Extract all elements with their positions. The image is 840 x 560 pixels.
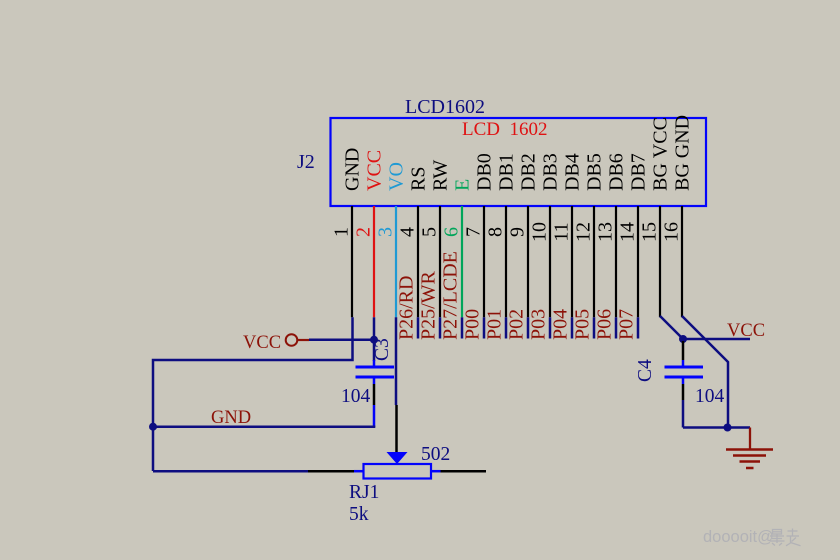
svg-text:LCD 1602: LCD 1602 (462, 119, 548, 140)
svg-text:10: 10 (529, 222, 551, 242)
potentiometer RJ1 (354, 452, 441, 479)
pin 11 (DB4) of J2 (551, 153, 584, 317)
svg-text:E: E (452, 179, 474, 191)
svg-text:BG GND: BG GND (672, 115, 694, 191)
pin 13 (DB6) of J2 (595, 153, 628, 317)
svg-text:C4: C4 (635, 359, 656, 382)
svg-text:DB5: DB5 (584, 153, 606, 191)
svg-text:dooooit@: dooooit@ (703, 528, 774, 546)
watermark dooooit@baozou (703, 528, 801, 546)
reference RJ1 (349, 482, 379, 503)
wire: RJ1 right terminal (441, 470, 487, 473)
ground symbol (726, 428, 773, 469)
pin 6 (E) of J2 (441, 179, 474, 318)
wire stub with net label P25/WR on pin 5 (418, 270, 441, 340)
svg-text:DB0: DB0 (474, 153, 496, 191)
svg-text:P26/RD: P26/RD (396, 276, 418, 340)
pin 14 (DB7) of J2 (617, 153, 650, 317)
svg-text:P07: P07 (616, 309, 638, 340)
connector J2 LCD1602 body (331, 118, 707, 206)
pin 15 (BG VCC) of J2 (639, 117, 672, 317)
reference C3 (372, 338, 393, 361)
pin 9 (DB2) of J2 (507, 153, 540, 317)
svg-text:13: 13 (595, 222, 617, 242)
pin 4 (RS) of J2 (397, 167, 430, 318)
svg-text:P27/LCDE: P27/LCDE (440, 251, 462, 340)
power net label VCC (right) (727, 321, 765, 341)
wire stub with net label P27/LCDE on pin 6 (440, 251, 463, 340)
pin 1 (GND) of J2 (331, 148, 364, 318)
svg-text:P00: P00 (462, 309, 484, 340)
pin 7 (DB0) of J2 (463, 153, 496, 317)
svg-text:VCC: VCC (364, 150, 386, 191)
svg-text:P03: P03 (528, 309, 550, 340)
wire: ground rail horizontal (153, 425, 375, 428)
pin 10 (DB3) of J2 (529, 153, 562, 317)
svg-text:P05: P05 (572, 309, 594, 340)
wire: junction down to C4 (682, 341, 685, 360)
svg-text:VCC: VCC (727, 321, 765, 341)
pin 3 (VO) of J2 (375, 162, 408, 317)
wire stub with net label P00 on pin 7 (462, 309, 485, 340)
capacitor C3 (356, 360, 395, 384)
svg-text:P04: P04 (550, 309, 572, 340)
wire: C3 bottom to ground rail (373, 384, 376, 427)
label LCD 1602 (header text) (462, 119, 548, 140)
pin 2 (VCC) of J2 (353, 150, 386, 317)
value 5k of RJ1 (349, 504, 369, 525)
svg-text:2: 2 (353, 227, 375, 237)
svg-text:DB2: DB2 (518, 153, 540, 191)
svg-text:VCC: VCC (243, 333, 281, 353)
pin 16 (BG GND) of J2 (661, 115, 694, 317)
wire stub with net label P07 on pin 14 (616, 309, 639, 340)
pin 5 (RW) of J2 (419, 160, 452, 318)
svg-text:C3: C3 (372, 338, 393, 361)
svg-text:DB3: DB3 (540, 153, 562, 191)
svg-text:DB7: DB7 (628, 153, 650, 191)
wire: pin 16 (BG GND) diagonal and down to ground junction (682, 316, 728, 428)
svg-text:LCD1602: LCD1602 (405, 96, 485, 118)
svg-text:5k: 5k (349, 504, 369, 525)
wire stub with net label P26/RD on pin 4 (396, 276, 419, 340)
label LCD1602 (part value) (405, 96, 485, 118)
svg-text:P06: P06 (594, 309, 616, 340)
capacitor C4 (665, 360, 704, 384)
svg-text:DB4: DB4 (562, 153, 584, 191)
wire stub with net label P02 on pin 9 (506, 309, 529, 340)
wire: pin 3 (VO) down to RJ1 wiper (395, 317, 398, 452)
svg-text:16: 16 (661, 222, 683, 242)
wire: pin 15 (BG VCC) diagonal to VCC junction (660, 316, 683, 339)
svg-text:15: 15 (639, 222, 661, 242)
svg-text:P01: P01 (484, 309, 506, 340)
pin 8 (DB1) of J2 (485, 153, 518, 317)
value 104 of C3 (341, 386, 371, 407)
value 104 of C4 (695, 386, 725, 407)
svg-text:4: 4 (397, 227, 419, 237)
wire: VCC terminal to junction on pin2 net (309, 338, 374, 341)
svg-text:P02: P02 (506, 309, 528, 340)
wire stub with net label P06 on pin 13 (594, 309, 617, 340)
wire: C4 bottom to ground junction (683, 384, 750, 428)
svg-text:7: 7 (463, 227, 485, 237)
power terminal VCC (left) (243, 333, 309, 353)
svg-text:DB1: DB1 (496, 153, 518, 191)
svg-text:RJ1: RJ1 (349, 482, 379, 503)
svg-text:8: 8 (485, 227, 507, 237)
svg-text:GND: GND (342, 148, 364, 191)
svg-text:6: 6 (441, 227, 463, 237)
pin 12 (DB5) of J2 (573, 153, 606, 317)
wire stub with net label P05 on pin 12 (572, 309, 595, 340)
wire: ground rail down to RJ1 left terminal (153, 470, 354, 473)
wire stub with net label P01 on pin 8 (484, 309, 507, 340)
svg-text:9: 9 (507, 227, 529, 237)
svg-text:BG VCC: BG VCC (650, 117, 672, 191)
wire: pin 2 (VCC) down to junction and C3 (373, 317, 376, 361)
svg-text:104: 104 (695, 386, 725, 407)
junction dot on ground rail (149, 423, 157, 431)
wire stub with net label P03 on pin 10 (528, 309, 551, 340)
svg-text:14: 14 (617, 222, 639, 242)
junction dot at C4 / BG GND / ground (724, 424, 732, 432)
junction dot at BG VCC / C4 / VCC (679, 335, 687, 343)
svg-text:5: 5 (419, 227, 441, 237)
reference C4 (635, 359, 656, 382)
svg-text:RS: RS (408, 167, 430, 191)
svg-text:104: 104 (341, 386, 371, 407)
svg-text:RW: RW (430, 160, 452, 191)
junction dot at VCC / pin2 / C3 (370, 336, 378, 344)
svg-text:11: 11 (551, 222, 573, 241)
svg-text:VO: VO (386, 162, 408, 191)
svg-text:DB6: DB6 (606, 153, 628, 191)
reference designator J2 (297, 151, 315, 173)
wire stub with net label P04 on pin 11 (550, 309, 573, 340)
svg-text:3: 3 (375, 227, 397, 237)
value 502 of RJ1 (421, 444, 450, 465)
wire: VCC branch to the right (683, 338, 750, 341)
svg-text:P25/WR: P25/WR (418, 270, 440, 340)
ground net label GND (211, 408, 251, 428)
svg-text:GND: GND (211, 408, 251, 428)
svg-text:12: 12 (573, 222, 595, 242)
svg-text:1: 1 (331, 227, 353, 237)
wire: pin 1 (GND) down, left and down to ground rail (153, 317, 353, 471)
svg-text:J2: J2 (297, 151, 315, 173)
svg-text:502: 502 (421, 444, 450, 465)
